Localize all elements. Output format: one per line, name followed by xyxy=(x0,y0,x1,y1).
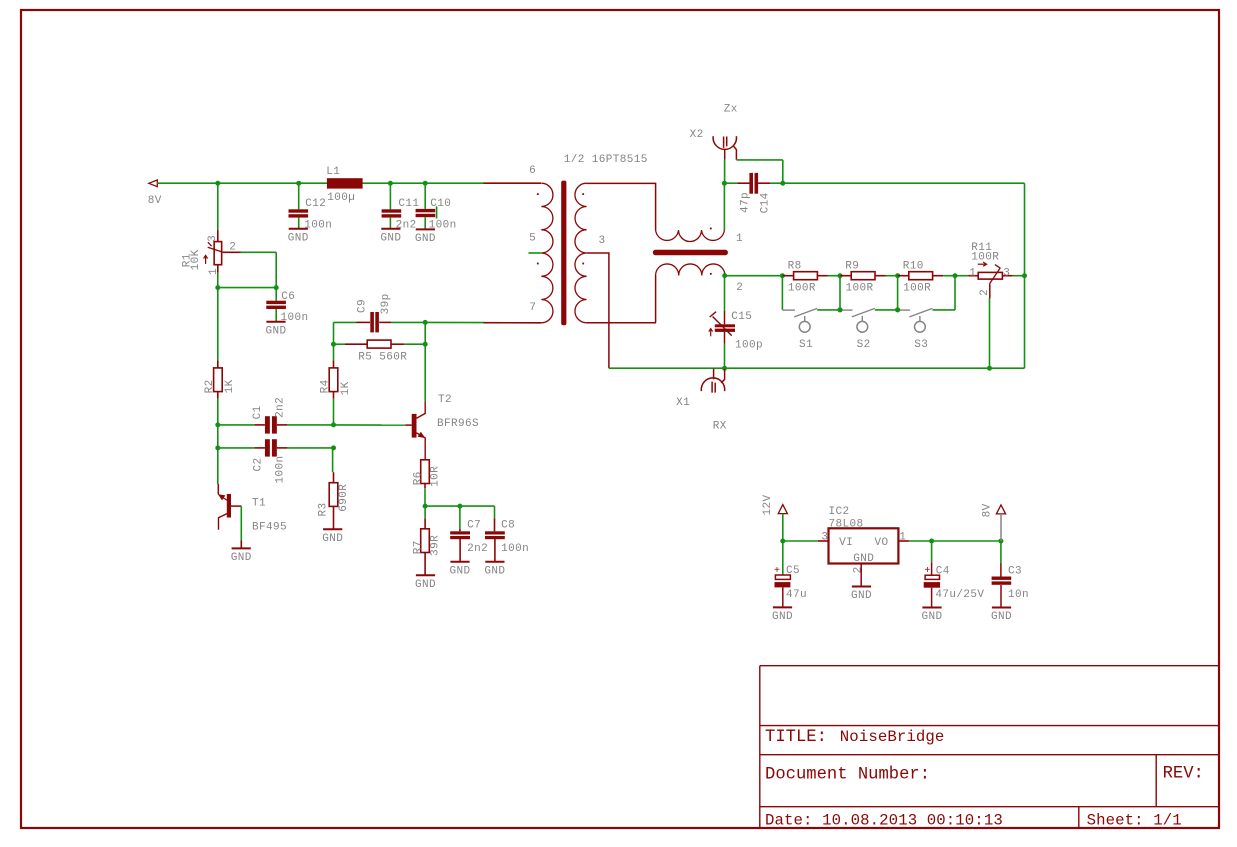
svg-text:R9: R9 xyxy=(845,260,859,272)
svg-text:C1: C1 xyxy=(252,405,264,419)
svg-text:R5 560R: R5 560R xyxy=(358,352,407,364)
svg-text:100R: 100R xyxy=(903,282,931,294)
svg-text:8V: 8V xyxy=(981,503,993,517)
svg-text:TITLE:: TITLE: xyxy=(765,728,827,747)
svg-text:100R: 100R xyxy=(971,251,999,263)
svg-text:C10: C10 xyxy=(430,198,451,210)
svg-text:GND: GND xyxy=(322,533,343,545)
svg-text:VI: VI xyxy=(839,537,853,549)
svg-text:R8: R8 xyxy=(788,260,802,272)
svg-text:C8: C8 xyxy=(501,519,515,531)
svg-text:Sheet: 1/1: Sheet: 1/1 xyxy=(1087,811,1182,829)
svg-text:100n: 100n xyxy=(304,219,332,231)
svg-text:C11: C11 xyxy=(398,198,419,210)
svg-text:8V: 8V xyxy=(148,195,162,207)
svg-text:R2: R2 xyxy=(204,379,216,393)
svg-text:GND: GND xyxy=(853,553,874,565)
svg-text:C15: C15 xyxy=(731,311,752,323)
svg-text:78L08: 78L08 xyxy=(829,519,864,531)
svg-text:7: 7 xyxy=(529,302,536,314)
svg-text:C14: C14 xyxy=(760,192,772,213)
svg-text:GND: GND xyxy=(231,552,252,564)
svg-text:GND: GND xyxy=(265,325,286,337)
svg-text:C2: C2 xyxy=(253,457,265,471)
svg-text:R3: R3 xyxy=(317,502,329,516)
svg-text:2: 2 xyxy=(736,282,743,294)
svg-text:12V: 12V xyxy=(762,494,774,515)
svg-text:GND: GND xyxy=(484,565,505,577)
svg-text:C4: C4 xyxy=(936,566,950,578)
svg-text:R7: R7 xyxy=(413,540,425,554)
svg-text:2n2: 2n2 xyxy=(275,397,287,418)
svg-text:1K: 1K xyxy=(224,379,236,393)
svg-text:X1: X1 xyxy=(676,397,690,409)
svg-text:100R: 100R xyxy=(788,282,816,294)
svg-text:100n: 100n xyxy=(281,312,309,324)
svg-text:BFR96S: BFR96S xyxy=(437,418,479,430)
svg-text:R4: R4 xyxy=(320,379,332,393)
svg-text:+: + xyxy=(774,566,780,577)
svg-text:3: 3 xyxy=(599,235,606,247)
svg-text:39R: 39R xyxy=(430,535,442,556)
svg-text:3: 3 xyxy=(1003,267,1010,279)
svg-text:GND: GND xyxy=(921,611,942,623)
svg-text:T1: T1 xyxy=(252,497,266,509)
svg-text:47u/25V: 47u/25V xyxy=(935,589,984,601)
svg-text:GND: GND xyxy=(415,579,436,591)
svg-text:GND: GND xyxy=(288,232,309,244)
svg-text:S2: S2 xyxy=(857,339,871,351)
svg-text:C7: C7 xyxy=(467,519,481,531)
svg-text:1: 1 xyxy=(899,532,906,544)
svg-text:L1: L1 xyxy=(326,166,340,178)
svg-text:R10: R10 xyxy=(903,260,924,272)
svg-text:100R: 100R xyxy=(846,282,874,294)
svg-text:10K: 10K xyxy=(190,249,202,270)
svg-text:GND: GND xyxy=(449,565,470,577)
svg-text:2: 2 xyxy=(853,566,865,573)
svg-text:GND: GND xyxy=(415,233,436,245)
svg-text:C3: C3 xyxy=(1008,566,1022,578)
svg-text:100n: 100n xyxy=(275,455,287,483)
svg-text:VO: VO xyxy=(875,537,889,549)
svg-text:T2: T2 xyxy=(438,394,452,406)
svg-text:3: 3 xyxy=(821,532,828,544)
svg-text:C6: C6 xyxy=(281,291,295,303)
svg-text:GND: GND xyxy=(851,590,872,602)
svg-text:690R: 690R xyxy=(338,484,350,512)
svg-text:47u: 47u xyxy=(786,589,807,601)
svg-text:BF495: BF495 xyxy=(252,521,287,533)
svg-text:47p: 47p xyxy=(739,192,751,213)
svg-text:1/2 16PT8515: 1/2 16PT8515 xyxy=(564,154,648,166)
svg-text:C9: C9 xyxy=(357,299,369,313)
svg-text:5: 5 xyxy=(529,233,536,245)
svg-text:Document Number:: Document Number: xyxy=(765,766,930,785)
svg-text:RX: RX xyxy=(713,421,727,433)
svg-text:10n: 10n xyxy=(1008,589,1029,601)
svg-text:C12: C12 xyxy=(305,198,326,210)
svg-text:GND: GND xyxy=(772,611,793,623)
svg-text:6: 6 xyxy=(529,165,536,177)
svg-text:39p: 39p xyxy=(380,293,392,314)
svg-text:100n: 100n xyxy=(429,219,457,231)
svg-text:S3: S3 xyxy=(914,339,928,351)
svg-text:3: 3 xyxy=(207,235,219,242)
svg-text:1: 1 xyxy=(736,233,743,245)
svg-text:1K: 1K xyxy=(340,381,352,395)
svg-text:S1: S1 xyxy=(799,339,813,351)
svg-text:100n: 100n xyxy=(501,543,529,555)
svg-text:100µ: 100µ xyxy=(327,192,355,204)
svg-text:Date: 10.08.2013 00:10:13: Date: 10.08.2013 00:10:13 xyxy=(765,811,1003,829)
svg-text:GND: GND xyxy=(991,611,1012,623)
svg-text:GND: GND xyxy=(380,232,401,244)
svg-text:2n2: 2n2 xyxy=(396,219,417,231)
svg-text:C5: C5 xyxy=(786,565,800,577)
svg-text:IC2: IC2 xyxy=(829,506,850,518)
svg-text:10R: 10R xyxy=(430,466,442,487)
svg-text:REV:: REV: xyxy=(1163,765,1204,784)
svg-text:NoiseBridge: NoiseBridge xyxy=(840,728,945,746)
svg-text:1: 1 xyxy=(969,267,976,279)
svg-text:Zx: Zx xyxy=(724,104,738,116)
svg-text:+: + xyxy=(924,566,930,577)
svg-text:2n2: 2n2 xyxy=(467,543,488,555)
svg-text:R6: R6 xyxy=(413,471,425,485)
svg-text:X2: X2 xyxy=(690,129,704,141)
svg-text:100p: 100p xyxy=(735,340,763,352)
